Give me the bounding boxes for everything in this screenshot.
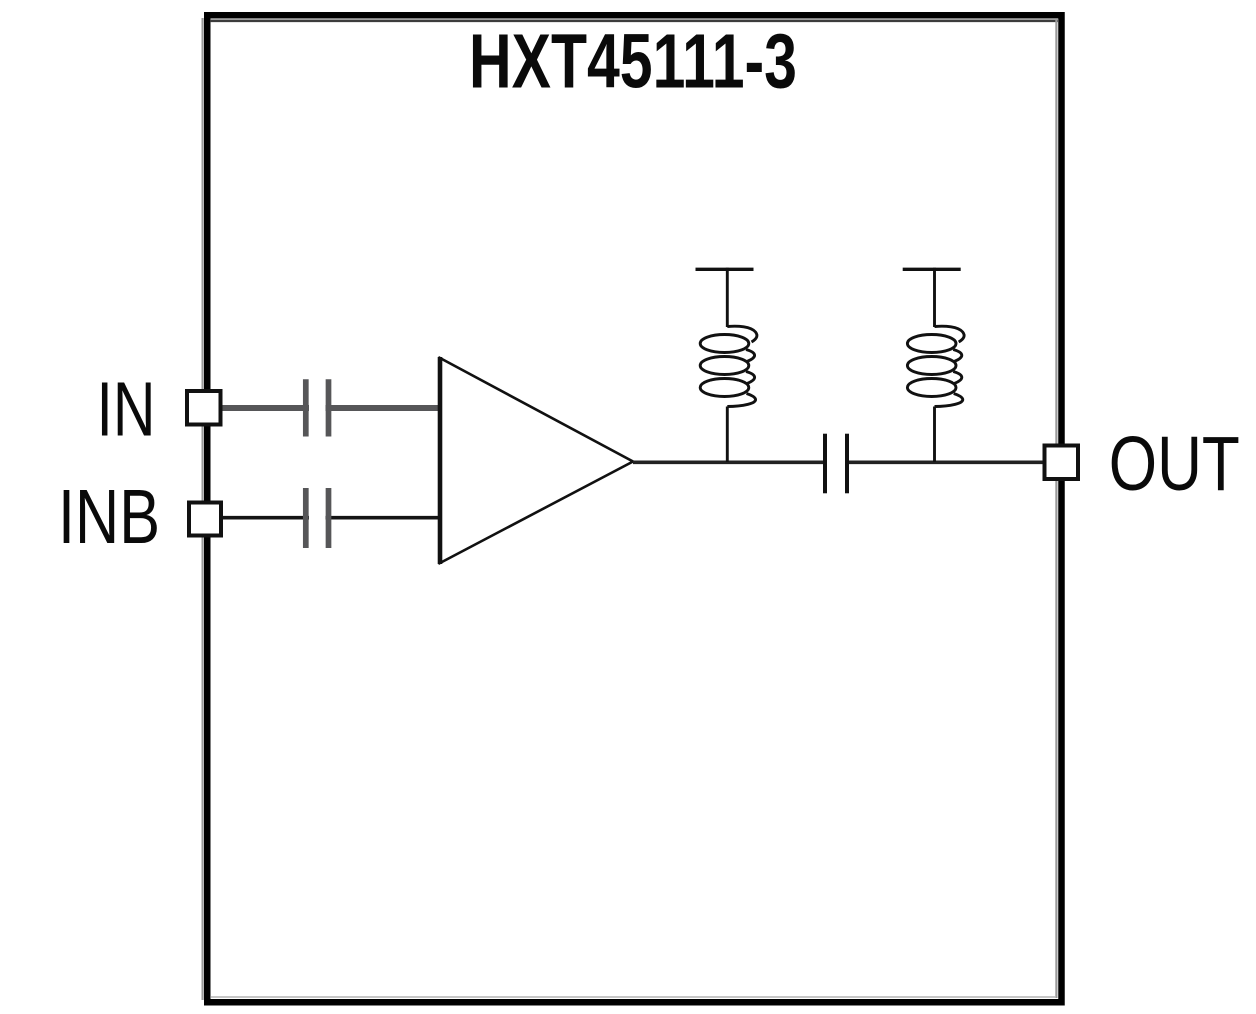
svg-text:INB: INB [58,474,160,560]
svg-text:HXT45111-3: HXT45111-3 [469,19,797,105]
svg-text:IN: IN [97,367,156,453]
svg-text:OUT: OUT [1109,421,1240,507]
